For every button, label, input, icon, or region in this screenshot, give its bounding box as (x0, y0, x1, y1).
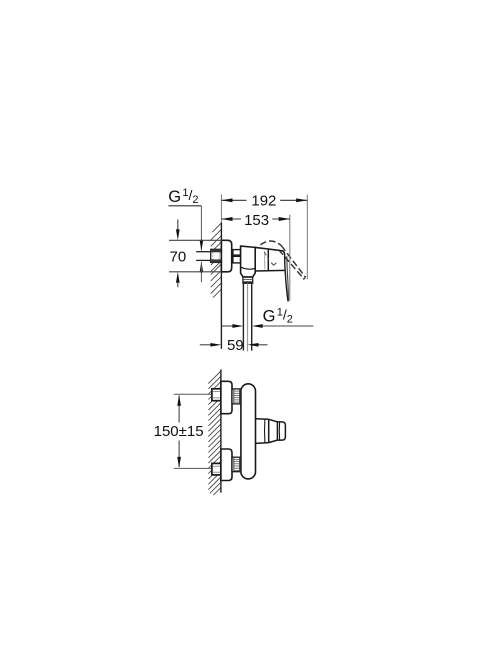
handle cone section 2 (269, 419, 278, 442)
dimension 150±15 (154, 395, 204, 468)
shower hose pipe (242, 283, 244, 350)
dimension 59 (200, 337, 268, 354)
upper connector thread (232, 389, 241, 404)
hose pipe centerline (247, 283, 249, 351)
lower union hex nut (212, 463, 221, 475)
dimension 153 extension line (right) (289, 215, 291, 301)
cone inner division (264, 419, 266, 443)
wall edge line (top view) (220, 222, 222, 348)
wall hatch (bottom view) (208, 371, 221, 495)
lever blade (solid, down position) (285, 255, 288, 301)
dimension 192 extension line (right) (306, 195, 308, 280)
lower connector thread (232, 457, 241, 472)
handle nose (283, 251, 285, 255)
mixer body (top view) (241, 246, 256, 277)
supply pipe lines (left of wall) (196, 251, 211, 253)
wall hatch (top view) (211, 223, 222, 298)
wall edge line (bottom view) (220, 370, 222, 493)
escutcheon flange (top view) (221, 240, 231, 271)
dimension 192 (221, 193, 307, 210)
extension line upper union (174, 393, 212, 395)
outlet collar (243, 277, 253, 283)
extension line lower union (174, 467, 212, 469)
cartridge / cone division (267, 249, 269, 271)
end cap inner curve (278, 422, 280, 440)
label G 1/2 (shower hose outlet) (221, 306, 313, 328)
svg-text:150±15: 150±15 (154, 423, 204, 440)
connection neck blocks (233, 250, 241, 256)
svg-text:153: 153 (244, 212, 269, 229)
label G 1/2 (supply, top left) (168, 187, 203, 282)
cartridge dome faint line (264, 251, 266, 269)
upper escutcheon cap (221, 381, 232, 413)
dimension 70 (169, 219, 221, 287)
dimension 153 (221, 212, 289, 229)
upper union hex nut (212, 389, 221, 401)
svg-text:70: 70 (170, 249, 187, 266)
svg-text:192: 192 (251, 193, 276, 210)
dashed lever arc (raised position) (260, 241, 281, 246)
handle cone section 1 (256, 419, 269, 444)
cartridge + cone bottom edge (255, 269, 285, 272)
left extension line above wall (192/153 dims) (220, 194, 222, 222)
dashed lever blade (raised position) (281, 246, 305, 278)
lower escutcheon cap (221, 449, 232, 481)
dashed marks inside cone (264, 252, 269, 259)
handle end cap (277, 422, 285, 440)
mixer body capsule (bottom view) (241, 384, 256, 479)
cartridge housing top edge (255, 247, 283, 251)
svg-text:59: 59 (227, 337, 244, 354)
threaded inlet nipple G1/2 (211, 249, 222, 262)
body dome curve (241, 267, 255, 269)
